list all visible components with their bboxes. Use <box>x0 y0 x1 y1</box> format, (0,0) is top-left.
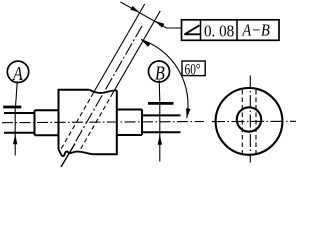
hole diameter dimension line with leader to frame <box>121 2 182 28</box>
dimension arrow on right wall <box>155 21 165 28</box>
arc arrow at hole axis end <box>141 40 151 47</box>
left step section <box>35 110 59 135</box>
datum A leader <box>16 81 18 105</box>
end view outer circle <box>216 88 283 155</box>
hole right wall hidden (dashed) <box>79 99 110 152</box>
left journal <box>4 113 35 133</box>
end view horizontal centerline <box>212 120 296 122</box>
svg-text:0. 08: 0. 08 <box>204 22 234 41</box>
shaft centerline <box>2 122 204 123</box>
end view inner circle <box>237 107 261 131</box>
datum B bar <box>148 102 174 105</box>
datum A circle <box>7 61 28 82</box>
hidden hole line right <box>255 90 257 154</box>
datum A dimension arrow <box>13 134 17 144</box>
end view vertical centerline <box>249 76 251 163</box>
dimension arrow on left wall <box>130 6 139 13</box>
angularity symbol <box>184 25 200 34</box>
svg-text:B: B <box>155 64 165 85</box>
datum A dimension line <box>14 108 16 155</box>
svg-text:A−B: A−B <box>242 20 271 39</box>
right step section <box>117 110 142 136</box>
block top break wave <box>90 90 117 93</box>
right journal <box>142 115 181 132</box>
hole right wall extension line <box>111 11 161 97</box>
arc arrow at shaft axis end <box>186 108 191 118</box>
hole left wall hidden (dashed) <box>61 99 90 150</box>
hole left wall extension line <box>91 4 145 97</box>
centre block outline <box>59 90 117 155</box>
hidden hole line left <box>241 90 243 154</box>
block bottom break wave <box>59 149 93 156</box>
feature control frame box <box>182 20 280 41</box>
datum B circle <box>149 61 170 82</box>
datum B leader <box>158 80 161 102</box>
datum B dimension line <box>159 105 161 162</box>
60 degree box <box>182 61 205 76</box>
frame cell dividers <box>201 20 238 41</box>
datum B dimension arrow <box>158 135 162 145</box>
svg-text:60°: 60° <box>185 61 201 78</box>
datum A bar <box>3 106 21 109</box>
60 degree dimension arc <box>141 40 188 119</box>
hole axis (dash-dot) <box>61 144 75 168</box>
